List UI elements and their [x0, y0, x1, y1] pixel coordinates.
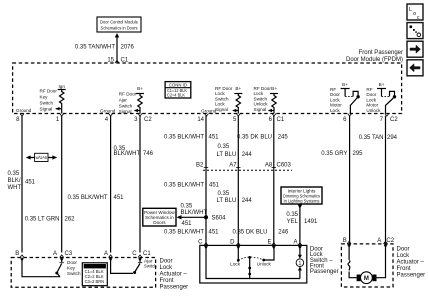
svg-text:A: A — [377, 238, 381, 244]
switch interior: common rail — [206, 245, 300, 278]
reference box: Power Window Schematics in Doors — [143, 208, 176, 226]
svg-text:246: 246 — [278, 230, 289, 236]
switch wiper arc — [238, 256, 263, 279]
svg-text:1: 1 — [298, 261, 301, 267]
svg-text:Switch: Switch — [144, 264, 157, 269]
svg-text:451: 451 — [209, 183, 220, 189]
svg-text:0.35: 0.35 — [218, 191, 230, 197]
svg-text:0.35 BLK/WHT: 0.35 BLK/WHT — [164, 135, 204, 141]
pin 3 C2 — [134, 114, 152, 124]
FPDM label — [346, 50, 403, 63]
svg-text:E: E — [267, 240, 271, 246]
svg-text:0.35: 0.35 — [286, 212, 298, 218]
svg-text:B+: B+ — [379, 82, 385, 87]
door lock switch label — [310, 246, 339, 275]
svg-text:0.35 DK BLU: 0.35 DK BLU — [237, 135, 272, 141]
svg-text:RF Door: RF Door — [40, 89, 58, 94]
unlock contact — [257, 245, 274, 266]
svg-text:244: 244 — [242, 152, 253, 158]
svg-text:746: 746 — [143, 151, 154, 157]
toolbar icon: Loc — [407, 4, 423, 21]
reference box: Interior Lights Dimming Schematics In Lighting Systems — [281, 187, 322, 204]
CONN ID box (FPDM): C1=12 BLK / C2=4 BLK — [165, 82, 191, 98]
FPDM module dashed box — [13, 63, 402, 114]
svg-text:L: L — [409, 7, 412, 13]
svg-text:LT BLU: LT BLU — [217, 152, 237, 158]
svg-text:451: 451 — [114, 195, 125, 201]
lamp (illumination) 1 — [296, 245, 304, 278]
ground label at pin 4 — [100, 109, 116, 114]
svg-text:Passenger: Passenger — [160, 284, 189, 290]
svg-text:Ground: Ground — [100, 109, 116, 114]
svg-text:Front: Front — [160, 278, 174, 284]
svg-text:C2=4 BLK: C2=4 BLK — [167, 93, 185, 98]
lock contact — [230, 245, 240, 266]
svg-text:CONN ID: CONN ID — [86, 264, 104, 269]
toolbar icon: scale — [407, 23, 423, 39]
svg-text:RF Door: RF Door — [119, 92, 137, 97]
svg-text:245: 245 — [278, 135, 289, 141]
svg-text:Door Module (FPDM): Door Module (FPDM) — [346, 57, 403, 63]
svg-text:295: 295 — [353, 151, 364, 157]
pin 15 C1 on FPDM top edge — [107, 57, 129, 63]
svg-text:0.35: 0.35 — [181, 204, 193, 210]
svg-text:Switch: Switch — [67, 271, 81, 276]
actuator internal wiring with flex loop — [348, 244, 386, 278]
svg-text:Lock: Lock — [397, 253, 411, 259]
assembly pins A C C1 — [104, 251, 151, 262]
svg-text:Door: Door — [397, 247, 410, 253]
svg-text:262: 262 — [65, 217, 76, 223]
svg-text:0.35 LT GRN: 0.35 LT GRN — [25, 217, 60, 223]
svg-text:0.35 BLK/WHT: 0.35 BLK/WHT — [164, 183, 204, 189]
svg-text:Signal: Signal — [119, 109, 132, 114]
RF Door Key Switch Signal input, resistor to Ign — [40, 84, 66, 114]
door lock actuator dashed box (motor) — [341, 244, 393, 287]
svg-text:C3=2 BRN: C3=2 BRN — [85, 279, 105, 284]
svg-text:0.35 TAN/WHT: 0.35 TAN/WHT — [75, 45, 115, 51]
svg-text:In Lighting Systems: In Lighting Systems — [284, 199, 321, 204]
wire pin8 to B: 0.35 BLK/WHT 451 — [8, 116, 36, 253]
svg-text:C603: C603 — [277, 162, 292, 168]
svg-text:o: o — [413, 11, 416, 17]
svg-text:CONN ID: CONN ID — [169, 83, 187, 88]
svg-text:Schematics in Doors: Schematics in Doors — [101, 26, 139, 31]
svg-text:Lock: Lock — [330, 108, 340, 113]
svg-text:YEL: YEL — [287, 219, 299, 225]
svg-text:0.35 TAN: 0.35 TAN — [359, 135, 384, 141]
svg-text:451: 451 — [182, 221, 193, 227]
svg-text:A: A — [104, 251, 108, 257]
svg-text:C2: C2 — [144, 117, 152, 123]
svg-text:Doors: Doors — [153, 220, 166, 225]
svg-text:294: 294 — [387, 135, 398, 141]
svg-text:C2: C2 — [390, 117, 398, 123]
svg-text:WHT: WHT — [8, 185, 22, 191]
pin 6 C1 — [269, 114, 285, 124]
CONN ID box (actuator): C1=4 BLK / C2=2 BLK / C3=2 BRN — [82, 263, 107, 286]
pin 1 — [56, 114, 64, 124]
svg-text:w/UA6: w/UA6 — [36, 155, 47, 160]
svg-text:B2: B2 — [196, 162, 204, 168]
svg-text:Signal: Signal — [215, 107, 228, 112]
wire pin14 to C (door lock switch): BLK/WHT 451 segments — [164, 116, 220, 246]
svg-text:D: D — [230, 240, 235, 246]
svg-text:Front: Front — [397, 266, 411, 272]
door key switch — [22, 258, 81, 277]
svg-text:0.35: 0.35 — [218, 144, 230, 150]
pin 6 (motor lock) — [343, 114, 351, 124]
svg-text:Signal: Signal — [254, 107, 267, 112]
svg-text:Lock: Lock — [230, 262, 240, 267]
pin 4 — [105, 114, 113, 124]
actuator pins B A C2 — [343, 238, 395, 248]
ground label at pin 8 — [16, 108, 32, 113]
svg-text:B+: B+ — [342, 82, 348, 87]
wire pin1 to A: 0.35 LT GRN 262 — [25, 116, 75, 253]
svg-text:Unlock: Unlock — [257, 262, 272, 267]
toolbar icon: next arrow — [407, 41, 423, 57]
svg-text:C1: C1 — [277, 117, 285, 123]
wire pin5 to D: 0.35 LT BLU 244 segments — [217, 116, 253, 246]
wire pin6 to B (actuator): 0.35 GRY 295 — [321, 116, 363, 244]
wire interior lights to A: 0.35 YEL 1491 — [286, 204, 318, 245]
svg-text:Ign: Ign — [59, 84, 66, 89]
motor M — [357, 272, 377, 284]
svg-text:451: 451 — [209, 135, 220, 141]
svg-text:B+: B+ — [271, 86, 277, 91]
svg-text:B: B — [15, 251, 19, 257]
svg-text:Signal: Signal — [40, 107, 53, 112]
ajar switch — [111, 258, 157, 275]
svg-text:0.35: 0.35 — [8, 171, 20, 177]
svg-text:0.35 GRY: 0.35 GRY — [321, 151, 347, 157]
svg-text:244: 244 — [242, 198, 253, 204]
RF Door Lock Switch Unlock Signal input, resistor to B+ — [254, 86, 279, 114]
splice S604 — [204, 215, 226, 221]
Door Lock Switch box — [200, 245, 307, 283]
pin 14 — [197, 114, 208, 124]
svg-text:BLK/WHT: BLK/WHT — [181, 210, 208, 216]
svg-text:1491: 1491 — [304, 219, 318, 225]
svg-text:Ground: Ground — [16, 108, 32, 113]
svg-text:Actuator –: Actuator – — [397, 260, 425, 266]
svg-text:C: C — [198, 240, 203, 246]
svg-text:Lock: Lock — [160, 265, 174, 271]
toolbar icon: back arrow — [407, 60, 423, 76]
svg-text:S604: S604 — [212, 216, 227, 222]
wire: 0.35 TAN/WHT 2076 to pin 15 C1 — [75, 33, 135, 63]
svg-text:Ajar: Ajar — [119, 98, 128, 103]
svg-text:0.35 BLK/WHT: 0.35 BLK/WHT — [67, 195, 107, 201]
svg-text:Front Passenger: Front Passenger — [359, 50, 403, 56]
svg-text:Passenger: Passenger — [310, 269, 339, 275]
option jumper w/UA6 — [26, 153, 57, 161]
RF Door Ajar Switch Signal input, resistor to B+ — [119, 86, 144, 114]
svg-text:B: B — [343, 238, 347, 244]
wire pin3 to C: 0.35 BLK/WHT 746 — [114, 116, 154, 253]
svg-text:C2: C2 — [386, 238, 394, 244]
svg-text:Unlock: Unlock — [366, 108, 381, 113]
door lock actuator label — [397, 247, 426, 279]
svg-text:0.35 DK BLU: 0.35 DK BLU — [232, 230, 267, 236]
pin 7 C2 (motor unlock) — [380, 114, 399, 124]
svg-text:A: A — [293, 240, 297, 246]
branch to Power Window reference: 0.35 BLK/WHT 451 — [177, 204, 208, 228]
svg-text:451: 451 — [209, 230, 220, 236]
svg-text:0.35 BLK/WHT: 0.35 BLK/WHT — [164, 230, 204, 236]
door key/ajar switch assembly dashed box — [11, 258, 155, 288]
svg-text:B+: B+ — [235, 86, 241, 91]
svg-text:Switch: Switch — [119, 104, 133, 109]
svg-text:C3: C3 — [65, 251, 73, 257]
pin 8 — [16, 114, 24, 124]
driver: RF Door Lock Motor Unlock — [366, 82, 396, 114]
svg-text:LT BLU: LT BLU — [217, 198, 237, 204]
svg-text:B+: B+ — [137, 86, 143, 91]
svg-text:Key: Key — [40, 95, 49, 100]
svg-text:C1: C1 — [143, 251, 151, 257]
ground label at pin 14 — [201, 109, 217, 114]
wire pin6C1 to E: 0.35 DK BLU 245/246 — [232, 116, 289, 246]
svg-text:Door: Door — [160, 258, 173, 264]
svg-text:Passenger: Passenger — [397, 273, 426, 279]
svg-text:Actuator –: Actuator – — [160, 271, 188, 277]
in-line connector C603 — [196, 162, 292, 170]
RF Door Lock Switch Lock Signal input, resistor to B+ — [215, 86, 242, 114]
wire pin4 to A (key/ajar assembly): 0.35 BLK/WHT 451 — [67, 116, 124, 253]
door lock actuator (switch assembly) label — [160, 258, 189, 290]
svg-text:Door: Door — [67, 260, 77, 265]
pin 5 — [233, 114, 240, 124]
svg-text:Switch: Switch — [40, 101, 54, 106]
switch box pins C D E A — [198, 240, 302, 250]
svg-text:A: A — [53, 251, 57, 257]
svg-text:BLK/: BLK/ — [8, 178, 21, 184]
wire pin7 to A (actuator): 0.35 TAN 294 — [359, 116, 398, 244]
svg-text:BLK/WHT: BLK/WHT — [114, 151, 141, 157]
reference box: Door Control Module Schematics in Doors — [97, 17, 141, 32]
assembly pins B A C3 — [15, 251, 73, 262]
svg-text:2076: 2076 — [121, 45, 135, 51]
driver: RF Door Lock Motor Lock — [330, 82, 360, 114]
svg-text:14: 14 — [197, 117, 204, 123]
svg-text:C: C — [132, 251, 137, 257]
svg-text:Door Control Module: Door Control Module — [100, 20, 138, 25]
svg-text:M: M — [364, 276, 369, 282]
svg-text:Key: Key — [67, 266, 76, 271]
svg-text:451: 451 — [25, 180, 36, 186]
